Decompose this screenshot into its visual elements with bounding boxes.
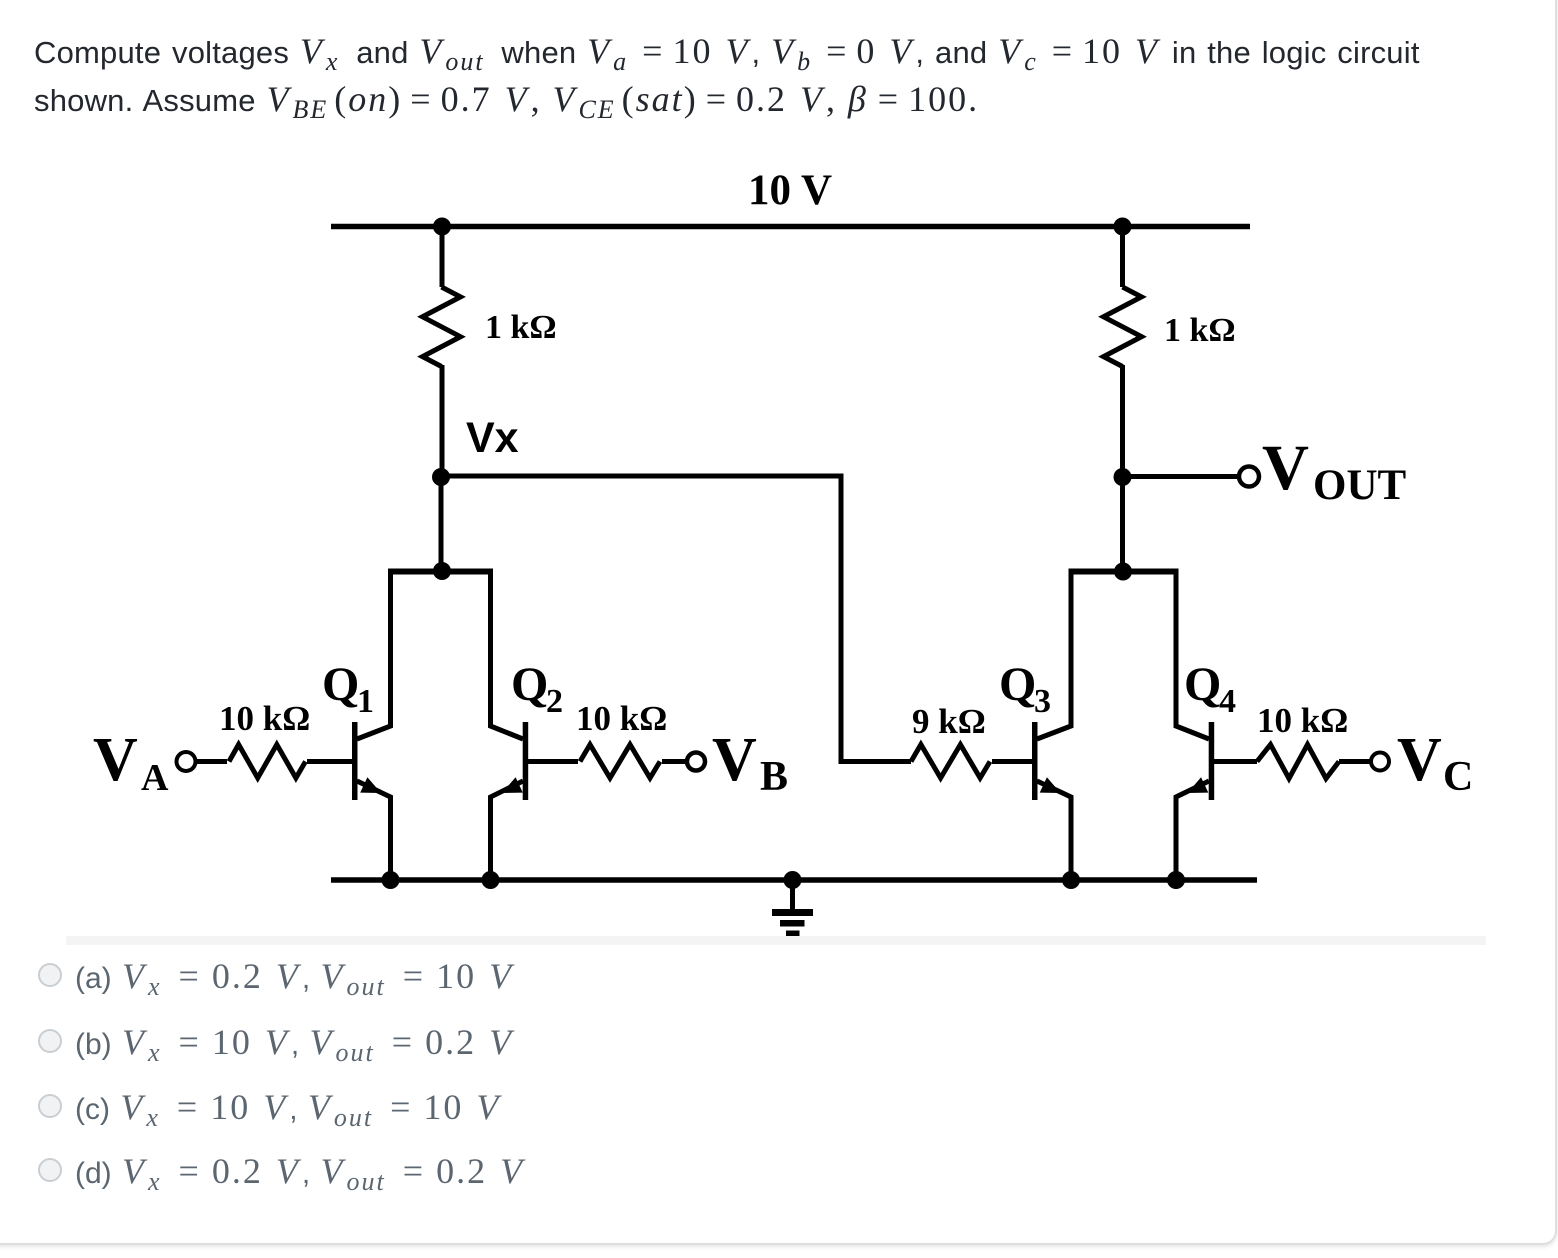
svg-text:1 kΩ: 1 kΩ bbox=[1164, 312, 1236, 349]
label 9 kOhm bbox=[912, 702, 986, 741]
ground bbox=[772, 880, 813, 937]
wire Q4 base to RC bbox=[1214, 759, 1257, 764]
svg-text:3: 3 bbox=[1034, 683, 1051, 720]
svg-text:V: V bbox=[93, 726, 138, 794]
svg-text:Q: Q bbox=[1184, 658, 1221, 711]
svg-text:A: A bbox=[141, 757, 169, 799]
option a bbox=[38, 958, 515, 994]
resistor R3 9k bbox=[911, 745, 990, 779]
label Q1 bbox=[322, 658, 374, 720]
svg-text:B: B bbox=[760, 754, 788, 800]
wire VA to RA bbox=[196, 759, 228, 764]
label Vx bbox=[466, 414, 519, 462]
ground junction dot bbox=[784, 871, 802, 889]
resistor RB 10k bbox=[580, 745, 660, 779]
svg-text:OUT: OUT bbox=[1313, 462, 1407, 509]
node Vout dot bbox=[1114, 468, 1132, 486]
junction dot collector bar left bbox=[433, 562, 451, 580]
option d bbox=[38, 1153, 526, 1189]
wire Q2 base to RB bbox=[528, 759, 578, 764]
svg-text:Q: Q bbox=[322, 658, 359, 711]
option c bbox=[38, 1089, 502, 1125]
resistor RA 10k bbox=[229, 745, 306, 779]
wire node Vx to Q3 branch bbox=[441, 476, 911, 762]
svg-text:V: V bbox=[1397, 726, 1442, 794]
svg-text:V: V bbox=[1262, 432, 1309, 504]
gray strip bbox=[66, 936, 1486, 945]
junction dot emitter Q1 bbox=[382, 871, 400, 889]
terminal VB bbox=[687, 753, 705, 771]
svg-text:Q: Q bbox=[999, 658, 1036, 711]
junction dot top rail left bbox=[433, 218, 451, 236]
label VB bbox=[712, 726, 788, 800]
wire rail to R2 bbox=[1120, 227, 1125, 288]
label VC bbox=[1397, 726, 1473, 800]
svg-text:10 V: 10 V bbox=[748, 167, 832, 214]
wire RB to terminal VB bbox=[662, 759, 688, 764]
svg-text:Vx: Vx bbox=[466, 414, 519, 462]
wire R3 to Q3 base bbox=[992, 759, 1032, 764]
transistor Q1 bbox=[352, 571, 391, 880]
svg-text:10 kΩ: 10 kΩ bbox=[576, 699, 667, 738]
label VA bbox=[93, 726, 169, 799]
node Vx dot bbox=[432, 468, 450, 486]
terminal VA bbox=[177, 752, 196, 771]
wire RA to Q1 base bbox=[307, 759, 352, 764]
svg-text:9 kΩ: 9 kΩ bbox=[912, 702, 986, 741]
svg-text:10 kΩ: 10 kΩ bbox=[1257, 701, 1348, 740]
svg-text:Q: Q bbox=[511, 658, 548, 711]
wire R1 to node Vx bbox=[440, 365, 445, 477]
wire node Vx down to Q1 Q2 collectors bbox=[439, 477, 444, 571]
wire collector bar Q3 Q4 bbox=[1069, 569, 1179, 575]
junction dot emitter Q2 bbox=[482, 871, 500, 889]
label Q3 bbox=[999, 658, 1051, 720]
transistor Q2 bbox=[491, 571, 529, 880]
wire Vout node down to collectors bbox=[1120, 477, 1125, 572]
wire collector bar Q1 Q2 bbox=[388, 569, 493, 575]
label 1 kOhm right bbox=[1164, 312, 1236, 349]
terminal VC bbox=[1371, 753, 1389, 771]
label 10 kOhm B bbox=[576, 699, 667, 738]
wire Vout node to terminal bbox=[1123, 474, 1240, 479]
junction dot emitter Q4 bbox=[1167, 871, 1185, 889]
junction dot emitter Q3 bbox=[1062, 871, 1080, 889]
terminal Vout bbox=[1239, 467, 1259, 487]
wire rail to R1 bbox=[440, 227, 445, 288]
junction dot collector bar right bbox=[1114, 563, 1132, 581]
ground rail bbox=[331, 877, 1257, 883]
label Q4 bbox=[1184, 658, 1236, 720]
svg-text:10 kΩ: 10 kΩ bbox=[219, 699, 310, 738]
label VOUT bbox=[1262, 432, 1407, 509]
resistor R2 1k right bbox=[1104, 287, 1142, 367]
svg-text:1: 1 bbox=[357, 683, 374, 720]
label 1 kOhm left bbox=[485, 309, 557, 346]
10V supply rail bbox=[331, 224, 1250, 230]
label 10 kOhm C bbox=[1257, 701, 1348, 740]
wire RC to terminal VC bbox=[1339, 759, 1371, 764]
svg-text:4: 4 bbox=[1219, 683, 1236, 720]
label 10 kOhm A bbox=[219, 699, 310, 738]
resistor RC 10k bbox=[1257, 745, 1339, 779]
junction dot top rail right bbox=[1114, 218, 1132, 236]
label Q2 bbox=[511, 658, 563, 720]
transistor Q3 bbox=[1032, 572, 1071, 881]
option b bbox=[38, 1024, 515, 1060]
svg-text:1 kΩ: 1 kΩ bbox=[485, 309, 557, 346]
svg-text:C: C bbox=[1443, 754, 1473, 800]
wire R2 to node Vout bbox=[1120, 365, 1125, 477]
svg-text:2: 2 bbox=[546, 683, 563, 720]
svg-text:V: V bbox=[712, 726, 757, 794]
question text bbox=[34, 28, 1420, 124]
resistor R1 1k left bbox=[423, 287, 461, 367]
transistor Q4 bbox=[1176, 572, 1214, 881]
label 10 V bbox=[748, 167, 832, 214]
